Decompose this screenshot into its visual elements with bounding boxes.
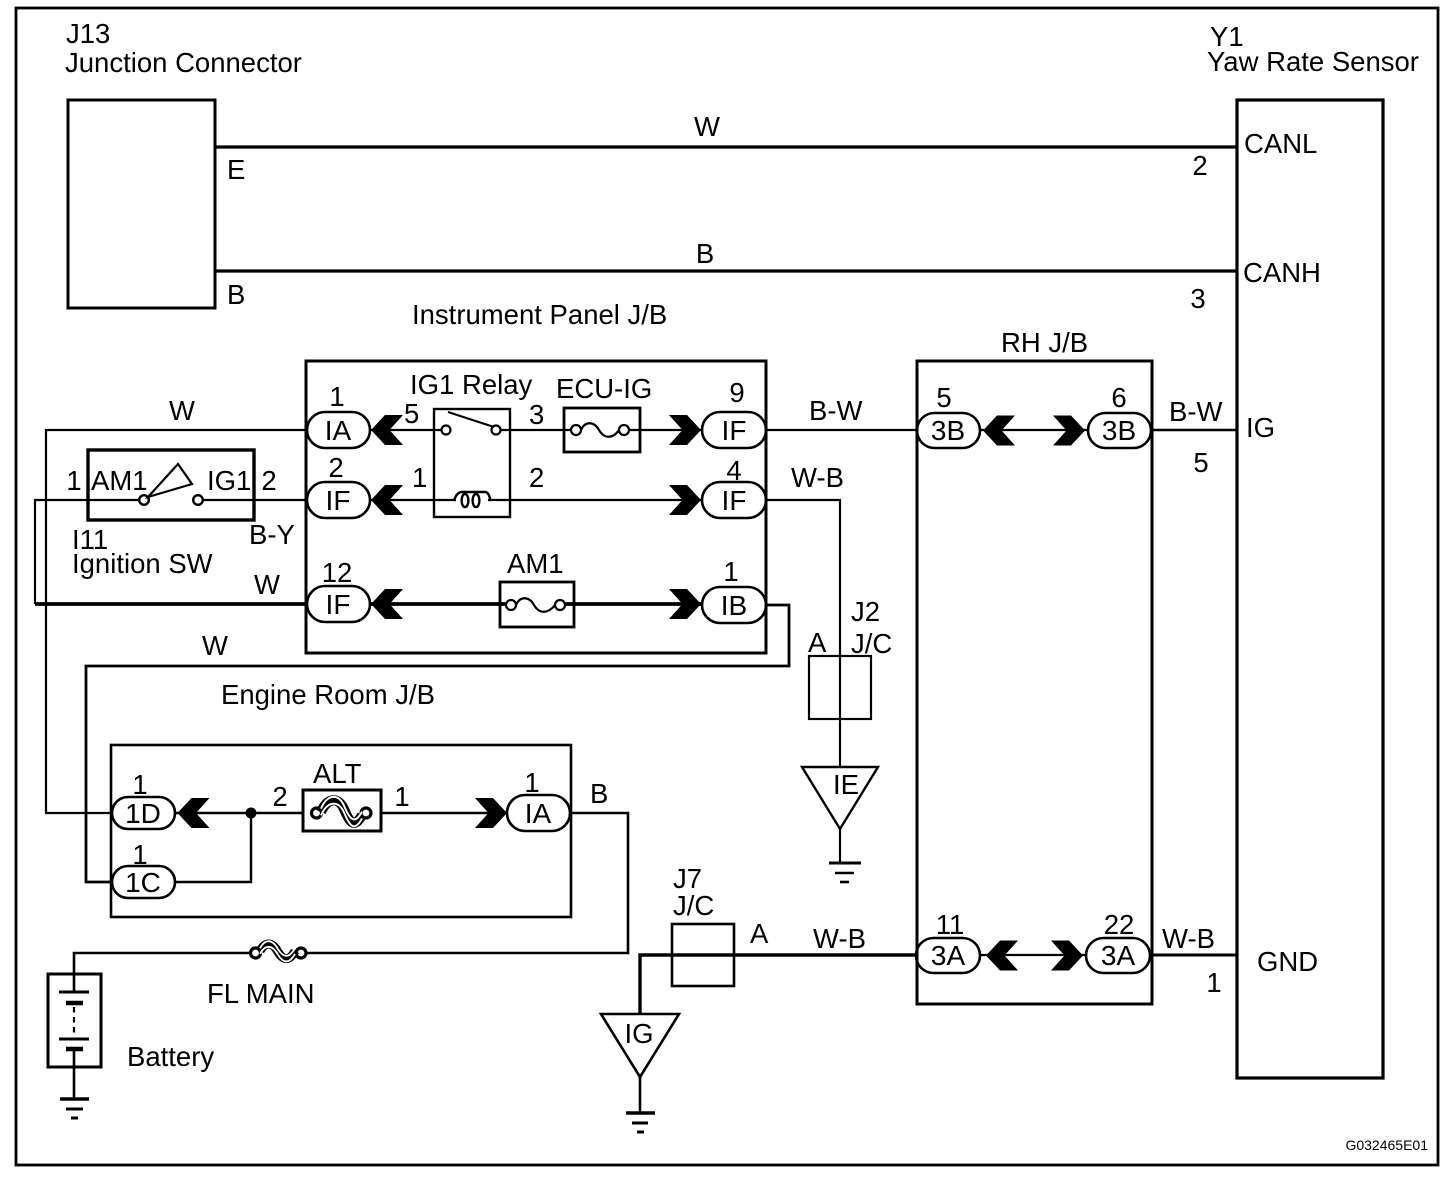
svg-text:W: W [169, 395, 195, 426]
svg-text:1: 1 [723, 556, 738, 587]
svg-text:Ignition SW: Ignition SW [72, 548, 213, 579]
svg-text:1: 1 [329, 381, 344, 412]
svg-text:IG: IG [624, 1018, 653, 1049]
svg-text:IG: IG [1246, 412, 1275, 443]
svg-text:A: A [808, 627, 827, 658]
svg-text:ECU-IG: ECU-IG [556, 373, 652, 404]
svg-text:J/C: J/C [851, 628, 892, 659]
svg-text:B: B [590, 778, 608, 809]
svg-text:2: 2 [328, 452, 343, 483]
svg-text:AM1: AM1 [91, 465, 148, 496]
svg-text:W-B: W-B [1162, 923, 1215, 954]
svg-text:ALT: ALT [313, 758, 362, 789]
svg-text:2: 2 [272, 781, 287, 812]
svg-text:B: B [227, 279, 245, 310]
svg-text:2: 2 [1192, 150, 1207, 181]
svg-text:3B: 3B [931, 415, 965, 446]
svg-text:Battery: Battery [127, 1041, 214, 1072]
svg-text:IF: IF [326, 589, 351, 620]
svg-text:Junction Connector: Junction Connector [65, 47, 302, 78]
svg-text:4: 4 [726, 455, 741, 486]
svg-text:CANL: CANL [1244, 128, 1317, 159]
svg-text:J2: J2 [851, 596, 880, 627]
svg-text:W-B: W-B [813, 923, 866, 954]
svg-text:5: 5 [404, 398, 419, 429]
svg-text:IF: IF [326, 485, 351, 516]
svg-text:1: 1 [132, 839, 147, 870]
svg-text:6: 6 [1111, 382, 1126, 413]
svg-text:Engine Room J/B: Engine Room J/B [221, 679, 435, 710]
svg-text:11: 11 [936, 909, 965, 940]
svg-text:9: 9 [729, 377, 744, 408]
svg-text:2: 2 [529, 462, 544, 493]
svg-text:B-Y: B-Y [249, 519, 295, 550]
svg-text:A: A [750, 918, 769, 949]
svg-text:IG1: IG1 [207, 465, 251, 496]
svg-text:W: W [694, 111, 720, 142]
svg-text:W: W [202, 630, 228, 661]
svg-text:1D: 1D [125, 798, 161, 829]
svg-text:1: 1 [412, 462, 427, 493]
svg-text:3: 3 [529, 399, 544, 430]
svg-text:FL MAIN: FL MAIN [207, 978, 314, 1009]
svg-text:W-B: W-B [791, 462, 844, 493]
svg-text:1: 1 [524, 767, 539, 798]
svg-text:1: 1 [66, 465, 81, 496]
svg-text:AM1: AM1 [507, 548, 564, 579]
svg-text:1: 1 [394, 781, 409, 812]
svg-text:2: 2 [261, 465, 276, 496]
svg-text:RH J/B: RH J/B [1001, 327, 1088, 358]
svg-text:IB: IB [721, 590, 747, 621]
svg-text:IF: IF [722, 415, 747, 446]
svg-text:J13: J13 [66, 18, 110, 49]
svg-text:IA: IA [525, 798, 552, 829]
svg-text:G032465E01: G032465E01 [1345, 1137, 1428, 1153]
svg-text:5: 5 [1193, 447, 1208, 478]
svg-text:1: 1 [132, 769, 147, 800]
svg-text:Instrument Panel J/B: Instrument Panel J/B [412, 299, 667, 330]
svg-text:12: 12 [322, 557, 353, 588]
svg-text:CANH: CANH [1243, 257, 1321, 288]
svg-text:B-W: B-W [1169, 396, 1223, 427]
svg-text:B: B [696, 238, 714, 269]
svg-text:IG1 Relay: IG1 Relay [410, 369, 533, 400]
svg-text:W: W [254, 569, 280, 600]
svg-text:IA: IA [325, 415, 352, 446]
svg-text:E: E [227, 154, 245, 185]
svg-text:1: 1 [1206, 967, 1221, 998]
svg-text:3A: 3A [931, 940, 966, 971]
svg-text:GND: GND [1257, 946, 1318, 977]
svg-text:3: 3 [1190, 283, 1205, 314]
svg-text:3B: 3B [1102, 415, 1136, 446]
svg-text:IF: IF [722, 485, 747, 516]
svg-text:IE: IE [833, 769, 859, 800]
svg-text:J/C: J/C [673, 890, 714, 921]
svg-text:5: 5 [936, 382, 951, 413]
svg-text:Yaw Rate Sensor: Yaw Rate Sensor [1207, 46, 1419, 77]
svg-text:1C: 1C [125, 867, 161, 898]
svg-text:B-W: B-W [809, 395, 863, 426]
svg-text:22: 22 [1104, 909, 1135, 940]
svg-text:3A: 3A [1101, 940, 1136, 971]
